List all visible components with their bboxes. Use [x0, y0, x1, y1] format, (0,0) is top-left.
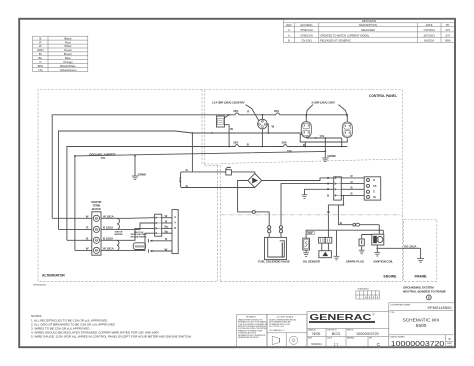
wire hour meter bottom — [224, 125, 229, 147]
svg-text:W: W — [86, 246, 89, 250]
svg-text:ALTERNATOR: ALTERNATOR — [42, 273, 65, 277]
wire spark plug top — [362, 235, 372, 240]
engine switch SW1 — [364, 177, 381, 200]
wire t4 left — [75, 249, 92, 251]
svg-text:W: W — [165, 214, 168, 218]
wire J2 bottom stub — [305, 137, 307, 138]
svg-text:W: W — [165, 247, 168, 251]
diode module D2 — [319, 251, 332, 258]
wire drop left duplex to B bus — [304, 142, 306, 147]
svg-text:10000003720: 10000003720 — [356, 332, 379, 336]
wire w2 to P1 — [117, 223, 155, 229]
proprietary note block — [238, 315, 267, 339]
svg-text:XX ± 0.25 XXX ± 0.13: XX ± 0.25 XXX ± 0.13 — [269, 326, 284, 328]
svg-text:Y/G: Y/G — [38, 68, 44, 72]
control panel bottom dashed — [221, 159, 403, 164]
REVTABLE — [284, 19, 455, 43]
svg-text:UPDATED TO MATCH CURRENT MODEL: UPDATED TO MATCH CURRENT MODEL — [320, 33, 370, 37]
svg-text:5-20R (20A) 120V: 5-20R (20A) 120V — [312, 101, 336, 105]
svg-text:B: B — [327, 193, 329, 197]
alternator enclosure dashed box — [38, 90, 218, 282]
svg-text:NEUTRAL BONDED TO FRAME: NEUTRAL BONDED TO FRAME — [403, 290, 446, 294]
svg-text:B: B — [303, 143, 305, 147]
wire AVR to brush R — [152, 240, 172, 242]
ground spark plug — [361, 246, 363, 250]
svg-text:CONTROL PANEL: CONTROL PANEL — [369, 94, 397, 98]
svg-text:1:1: 1:1 — [334, 342, 339, 346]
svg-text:W 12GA: W 12GA — [103, 214, 115, 218]
label stator winding — [114, 231, 123, 236]
svg-text:ROTOR: ROTOR — [135, 245, 144, 249]
wire w3 to P1 — [117, 228, 155, 240]
svg-text:M: M — [365, 297, 367, 299]
switch S1 — [226, 170, 232, 175]
svg-text:SPM0145500: SPM0145500 — [427, 305, 452, 310]
hour meter M1 — [217, 116, 225, 127]
svg-text:DATE: DATE — [426, 23, 433, 27]
leader 5-20R right — [339, 105, 348, 117]
label BW box — [307, 231, 314, 234]
ENGINE — [179, 167, 445, 300]
brush bar bottom — [147, 249, 149, 252]
svg-text:7/17/2013: 7/17/2013 — [423, 28, 435, 32]
engine enclosure chain line top — [221, 214, 403, 216]
svg-text:A: A — [288, 33, 290, 37]
svg-text:BY: BY — [446, 23, 450, 27]
title block outline — [237, 314, 267, 347]
rectifier D1 — [248, 174, 262, 188]
spark plug SP1 — [359, 239, 364, 246]
svg-text:B: B — [351, 186, 353, 190]
svg-text:IG: IG — [373, 196, 376, 199]
wire OS1 top BW — [306, 230, 383, 238]
wire loop left end — [181, 172, 184, 188]
node J1 R — [262, 114, 264, 116]
ground coil — [376, 248, 378, 252]
ground frame — [420, 248, 422, 258]
svg-text:GRND: GRND — [138, 172, 146, 176]
svg-text:B: B — [340, 221, 342, 225]
diode connector cells — [319, 237, 325, 243]
svg-text:REV: REV — [369, 338, 372, 340]
svg-text:B: B — [327, 187, 329, 191]
svg-text:B: B — [351, 192, 353, 196]
wire coil bottom — [376, 245, 378, 248]
rotor field label — [131, 232, 147, 239]
wire J1 top — [261, 115, 263, 119]
svg-text:6/6/2014: 6/6/2014 — [424, 39, 435, 43]
leader 5-20R left — [306, 105, 313, 117]
ground OS1 — [305, 250, 307, 253]
ground GRND left — [134, 156, 136, 176]
wire t3 left — [67, 239, 92, 241]
svg-text:B: B — [86, 236, 88, 240]
terminal TB1-1 — [93, 215, 99, 221]
svg-text:B: B — [247, 142, 249, 146]
svg-text:Yellow/Green: Yellow/Green — [59, 68, 76, 72]
wire D1 left to fuel line — [238, 181, 253, 212]
wire drop right duplex to B bus — [341, 138, 343, 147]
svg-text:G: G — [373, 179, 375, 182]
breaker CB1 25A — [235, 113, 238, 115]
wire O to P2 — [281, 184, 334, 226]
node GRND tap — [134, 155, 136, 157]
svg-text:DESCRIPTION: DESCRIPTION — [359, 23, 377, 27]
breaker CB3 25A — [235, 145, 238, 147]
node W tap 1 — [192, 132, 194, 134]
svg-text:5PM0145500: 5PM0145500 — [358, 289, 369, 291]
svg-text:GRND: GRND — [327, 154, 335, 158]
rotor R1 — [133, 243, 145, 250]
wires P2 to engine switch — [341, 177, 364, 179]
svg-text:C: C — [377, 342, 381, 348]
svg-text:RELEASED AT GENERAC: RELEASED AT GENERAC — [320, 39, 351, 43]
wire W bus — [59, 131, 303, 229]
svg-text:R: R — [174, 226, 176, 230]
svg-text:5PM0145500: 5PM0145500 — [33, 285, 47, 287]
logo column — [307, 312, 389, 348]
ground engine B — [302, 195, 308, 199]
svg-text:NSK: NSK — [312, 331, 321, 336]
svg-text:ENGINE: ENGINE — [384, 275, 398, 279]
wire drop to engine loop — [191, 133, 193, 172]
svg-text:ECO/ENG: ECO/ENG — [301, 23, 313, 27]
projection circle symbol — [290, 336, 298, 344]
svg-text:10000003720: 10000003720 — [391, 339, 445, 348]
stator winding 2 — [101, 239, 117, 241]
connection arrow — [327, 212, 330, 215]
control panel enclosure dashed box — [205, 90, 402, 282]
receptacle J1 L14-30R — [258, 119, 268, 129]
svg-text:FS: FS — [373, 185, 376, 188]
svg-text:WINDING: WINDING — [114, 234, 123, 236]
wire YG to frame — [377, 247, 420, 249]
svg-text:GENERAC: GENERAC — [310, 312, 372, 322]
svg-text:NSM: NSM — [445, 39, 451, 43]
wire B to P2 — [305, 189, 334, 195]
wire switch to rectifier — [231, 172, 254, 174]
connector P1 — [155, 214, 162, 236]
LEGEND — [33, 36, 88, 72]
leader L14 — [246, 105, 259, 121]
connector FS1 left — [268, 226, 271, 229]
ground GRND panel — [324, 138, 326, 158]
svg-text:Bu: Bu — [165, 225, 169, 229]
svg-text:DO NOT SCALE: DO NOT SCALE — [277, 315, 294, 318]
wire YG interconnect A — [306, 137, 341, 139]
svg-text:5500: 5500 — [416, 323, 427, 329]
svg-text:Bu: Bu — [165, 230, 169, 234]
right column — [389, 303, 455, 348]
svg-text:A: A — [174, 215, 176, 219]
svg-text:0759/CGH: 0759/CGH — [300, 28, 312, 32]
svg-text:SPARK PLUG: SPARK PLUG — [346, 260, 365, 264]
wire FS1 left — [268, 212, 270, 226]
wire J2 top — [305, 115, 307, 122]
receptacle J3 duplex right — [342, 122, 352, 138]
svg-text:B: B — [186, 168, 188, 172]
connector P2 — [334, 177, 342, 200]
svg-text:CN-1561: CN-1561 — [301, 39, 312, 43]
label stator term block — [91, 200, 101, 211]
weight symbol — [426, 295, 431, 300]
svg-text:Y/G 12GA: Y/G 12GA — [404, 244, 418, 248]
terminal TB1-4 — [93, 247, 99, 253]
svg-text:Y/G: Y/G — [287, 149, 293, 153]
wire B bus — [67, 147, 235, 241]
wire YG ground jumper — [75, 151, 325, 250]
svg-text:B 12GA: B 12GA — [103, 236, 114, 240]
svg-text:BCD: BCD — [332, 331, 341, 336]
wire J1 bottom — [261, 129, 263, 147]
svg-text:TITLE: TITLE — [390, 312, 394, 314]
node hm top — [228, 114, 230, 116]
wire loop bottom — [184, 187, 255, 189]
node jumper left — [74, 155, 76, 157]
ALTERNATOR — [52, 200, 178, 255]
wire switch feed top — [184, 171, 226, 173]
NOTES — [31, 314, 191, 339]
svg-text:TERM: TERM — [93, 204, 101, 208]
svg-text:W 12GA: W 12GA — [103, 246, 115, 250]
connector FS1 right — [279, 226, 282, 229]
engine enclosure bottom dashed — [221, 280, 403, 282]
svg-text:BLOCK: BLOCK — [92, 207, 101, 211]
svg-text:10/7/2013: 10/7/2013 — [423, 33, 435, 37]
wire J1 side — [267, 124, 268, 133]
svg-text:FUEL SOLENOID VALVE: FUEL SOLENOID VALVE — [258, 260, 290, 264]
svg-text:RELEASED: RELEASED — [361, 28, 375, 32]
regulator AVR U1 — [172, 210, 178, 254]
svg-text:R 12GA: R 12GA — [103, 225, 114, 229]
labels P2 left — [327, 176, 330, 198]
terminal TB1-2 — [93, 226, 99, 232]
svg-text:0759/CGH: 0759/CGH — [300, 33, 312, 37]
svg-text:5. WIRE GAUGE: 12GA (FOR ALL W: 5. WIRE GAUGE: 12GA (FOR ALL WIRES IN CO… — [31, 335, 191, 339]
wire B coil feed — [338, 205, 353, 225]
node J1 W — [267, 132, 269, 134]
wire kill drop — [328, 195, 343, 211]
svg-text:JOY: JOY — [445, 33, 450, 37]
svg-text:W: W — [272, 124, 275, 128]
svg-text:6/6/2014: 6/6/2014 — [311, 342, 322, 346]
TITLEBLOCK — [237, 289, 455, 349]
stator winding 1 — [101, 217, 117, 219]
svg-text:Y/G: Y/G — [320, 134, 326, 138]
title text — [403, 318, 441, 330]
svg-text:L14-30R (30A) 120/240V: L14-30R (30A) 120/240V — [212, 101, 246, 105]
wire t1 left — [52, 217, 92, 219]
projection cone symbol — [272, 336, 279, 344]
svg-text:B: B — [428, 296, 430, 300]
connector inline pair — [353, 223, 356, 226]
svg-text:B: B — [449, 337, 451, 341]
wire t2 left — [59, 228, 92, 230]
frame enclosure dashed box — [404, 219, 437, 281]
svg-text:Y/G: Y/G — [101, 156, 107, 160]
wire interconnect B — [300, 134, 347, 142]
revisions table — [284, 19, 455, 43]
label grounding system — [403, 286, 446, 294]
svg-text:B: B — [288, 39, 290, 43]
wire color legend table — [33, 36, 88, 71]
fuel solenoid valve FS1 — [265, 237, 287, 259]
svg-text:SHEET: SHEET — [447, 343, 452, 345]
labels P2 right — [351, 174, 354, 196]
terminal TB1-3 — [93, 237, 99, 243]
svg-text:W: W — [230, 127, 233, 131]
svg-text:®: ® — [373, 314, 375, 317]
svg-text:(ROTOR) WINDING: (ROTOR) WINDING — [131, 236, 147, 238]
GENERAC logo — [309, 312, 375, 323]
svg-text:FRAME: FRAME — [415, 275, 428, 279]
brush bar top — [147, 239, 149, 242]
wires cells to diode — [321, 243, 323, 251]
node hm bottom — [228, 146, 230, 148]
terminal block TB1 — [92, 212, 101, 255]
svg-text:B: B — [186, 184, 188, 188]
size cell — [445, 335, 447, 348]
svg-text:REV: REV — [286, 23, 292, 27]
wire J3 top — [346, 115, 348, 122]
svg-text:OIL SENSOR: OIL SENSOR — [303, 260, 321, 264]
wire D1 right to P2 — [262, 178, 334, 181]
node W tap 2 — [211, 132, 213, 134]
oil sensor OS1 — [303, 238, 310, 250]
svg-text:STATOR: STATOR — [91, 200, 101, 204]
ignition coil T1 — [372, 234, 384, 245]
wire coil top right drop — [378, 225, 380, 235]
wire w1 to P1 — [117, 217, 155, 220]
svg-text:SCHEMATIC WX: SCHEMATIC WX — [403, 318, 441, 324]
CONTROLPANEL — [52, 101, 352, 251]
ENCLOSURES — [38, 90, 437, 282]
breaker CB2 20A — [276, 113, 279, 115]
wire R bus — [52, 115, 235, 219]
receptacle J2 duplex left — [301, 122, 311, 138]
svg-text:1 OF 1: 1 OF 1 — [447, 346, 452, 348]
svg-text:REVISIONS: REVISIONS — [362, 19, 376, 23]
breaker CB4 20A — [284, 145, 287, 147]
wire hour meter top — [224, 115, 229, 118]
connector inline — [252, 210, 255, 213]
wire AVR to brush W — [152, 250, 172, 252]
wires P1 to AVR — [162, 217, 172, 219]
node J1 B — [262, 146, 264, 148]
wire w4 to P1 — [117, 233, 155, 250]
svg-text:W: W — [86, 214, 89, 218]
ground diode — [336, 230, 338, 256]
svg-text:IGNITION COIL: IGNITION COIL — [374, 260, 394, 264]
svg-text:JOY: JOY — [445, 28, 450, 32]
do not scale block — [269, 315, 297, 331]
